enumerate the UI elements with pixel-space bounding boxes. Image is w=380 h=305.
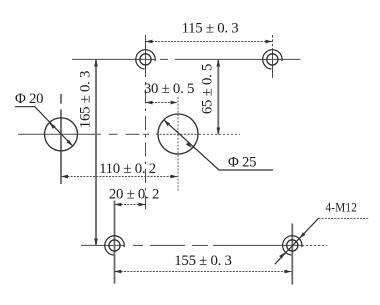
wire middle centerline through large circles <box>18 133 240 135</box>
leader phi20 <box>15 107 73 146</box>
svg-text:115 ± 0. 3: 115 ± 0. 3 <box>182 21 239 37</box>
svg-text:Φ 25: Φ 25 <box>228 155 256 171</box>
svg-text:65 ± 0. 5: 65 ± 0. 5 <box>200 64 216 114</box>
svg-text:155 ± 0. 3: 155 ± 0. 3 <box>174 253 231 269</box>
leader 4-M12 <box>275 218 368 264</box>
wire bottom centerline through bottom holes <box>81 244 327 246</box>
wire top centerline through top holes <box>72 58 300 60</box>
svg-text:30 ± 0. 5: 30 ± 0. 5 <box>144 81 194 97</box>
svg-text:Φ 20: Φ 20 <box>15 91 43 107</box>
wire vertical centerline of top-right hole <box>272 35 274 50</box>
svg-text:20 ± 0. 2: 20 ± 0. 2 <box>109 187 159 203</box>
svg-text:110 ± 0. 2: 110 ± 0. 2 <box>99 161 156 177</box>
dimension 165 line <box>95 60 97 246</box>
hole bottom-right M12 <box>283 236 302 255</box>
circle phi20 <box>45 118 78 151</box>
dimension 65 line <box>217 60 219 135</box>
wire vertical extension of bottom-right hole <box>291 224 293 285</box>
dimension 155 line <box>114 271 291 273</box>
leader phi25 <box>164 120 273 170</box>
dimension 110 line <box>61 176 178 178</box>
dimension 115 line <box>146 41 273 43</box>
svg-text:4-M12: 4-M12 <box>326 200 358 215</box>
dimension 30 line <box>146 102 178 104</box>
dimension 20 line <box>114 204 145 206</box>
wire vertical centerline of top-left hole <box>145 35 147 77</box>
hole top-right M12 <box>263 50 282 69</box>
svg-text:165 ± 0. 3: 165 ± 0. 3 <box>78 71 94 128</box>
circle phi25 <box>158 114 198 154</box>
hole top-left M12 <box>136 50 155 69</box>
wire vertical centerline of circle phi25 <box>177 97 179 192</box>
hole bottom-left M12 <box>105 236 124 255</box>
wire vertical extension of bottom-left hole <box>114 201 116 284</box>
wire vertical centerline of circle phi20 <box>60 94 62 184</box>
